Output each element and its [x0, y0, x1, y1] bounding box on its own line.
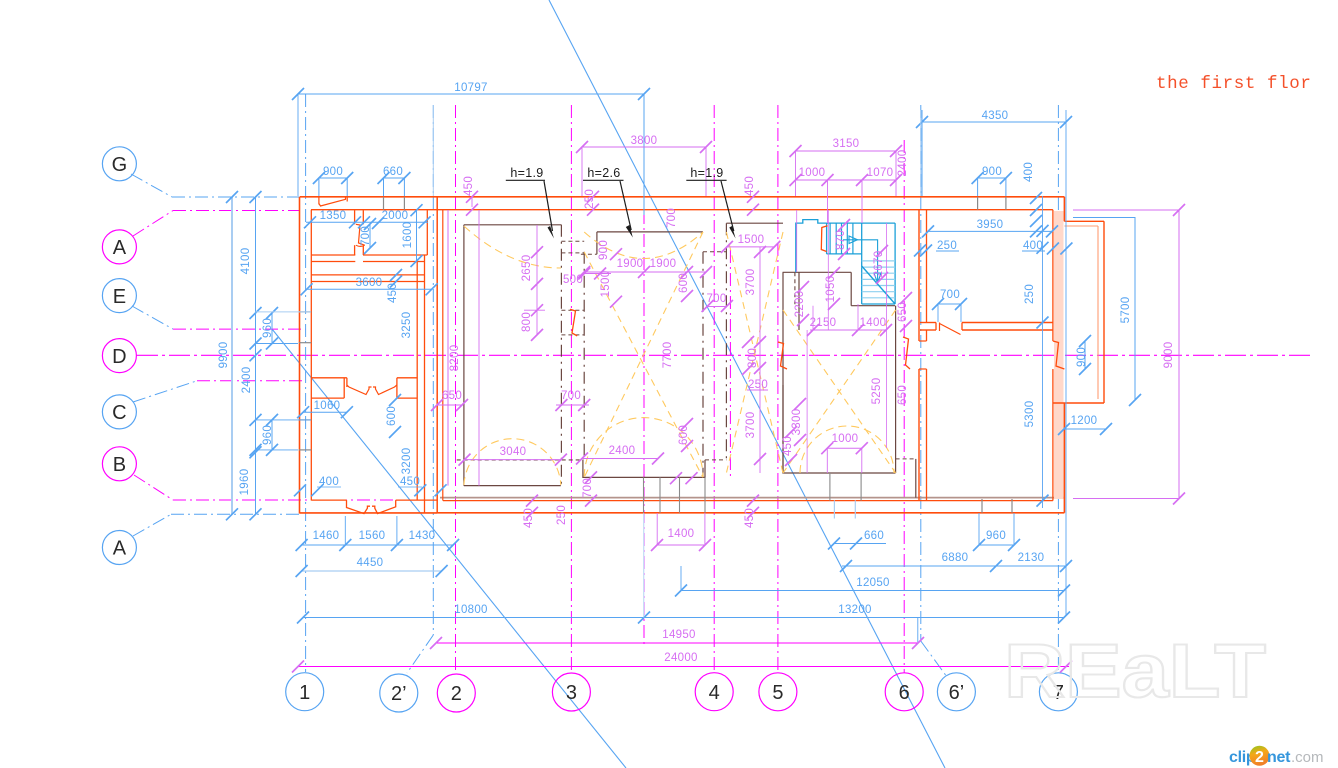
- svg-text:2200: 2200: [794, 291, 806, 318]
- right wall door 900 leaf: [1053, 341, 1065, 369]
- svg-text:net: net: [1267, 749, 1291, 766]
- svg-text:E: E: [113, 286, 126, 308]
- svg-text:5700: 5700: [1120, 297, 1132, 324]
- axis C leader: [133, 381, 197, 402]
- svg-text:650: 650: [897, 302, 909, 322]
- svg-text:9900: 9900: [218, 342, 230, 369]
- dim 1000 bottom centre room: [827, 447, 862, 449]
- svg-text:3200: 3200: [401, 448, 413, 475]
- axis circle B: [102, 447, 136, 481]
- dim 3040: [465, 459, 561, 461]
- stairs outline: [796, 220, 827, 273]
- right corridor door leaf: [903, 337, 910, 369]
- svg-text:450: 450: [463, 176, 475, 196]
- bottom-centre room walls (1000 window room): [782, 385, 784, 473]
- extension lines top: [432, 105, 434, 196]
- svg-text:1050: 1050: [825, 276, 837, 303]
- svg-text:900: 900: [598, 240, 610, 260]
- svg-text:4350: 4350: [982, 110, 1009, 122]
- dim 3950: [928, 230, 1052, 232]
- left room lintel dashed: [457, 459, 584, 461]
- svg-text:1: 1: [299, 682, 310, 704]
- dim 4450: [302, 570, 442, 572]
- axis 5 vertical: [777, 105, 779, 673]
- svg-text:h=1.9: h=1.9: [510, 166, 543, 180]
- stairs break line: [862, 266, 895, 304]
- windows bottom wall: [643, 477, 645, 512]
- centreline room vertical: [643, 165, 645, 646]
- svg-text:650: 650: [442, 390, 462, 402]
- axis circle A (upper): [102, 230, 136, 264]
- wing top rooms divider vertical: [354, 210, 356, 224]
- svg-text:450: 450: [744, 176, 756, 196]
- svg-text:2400: 2400: [609, 445, 636, 457]
- axis 3 vertical: [570, 105, 572, 673]
- svg-text:24000: 24000: [664, 652, 697, 664]
- axis circle 2apos: [380, 674, 418, 712]
- dim 9900 vertical: [231, 197, 233, 514]
- dim 1350 2000 chain: [306, 221, 428, 223]
- svg-text:2400: 2400: [241, 367, 253, 394]
- svg-text:960: 960: [986, 530, 1006, 542]
- svg-text:1350: 1350: [320, 210, 347, 222]
- svg-text:870: 870: [835, 230, 847, 250]
- svg-text:250: 250: [937, 240, 957, 252]
- axis 6 vertical: [903, 140, 905, 673]
- svg-text:5250: 5250: [871, 378, 883, 405]
- svg-text:3300: 3300: [791, 409, 803, 436]
- dim 1600 vertical: [416, 210, 418, 261]
- dim 1900 1900: [584, 271, 706, 273]
- svg-text:250: 250: [748, 379, 768, 391]
- svg-text:h=2.6: h=2.6: [587, 166, 620, 180]
- svg-text:7700: 7700: [662, 342, 674, 369]
- svg-text:660: 660: [864, 530, 884, 542]
- axis circle A (lower): [102, 531, 136, 565]
- outer wall right lower: [1063, 403, 1065, 513]
- svg-text:5300: 5300: [1024, 401, 1036, 428]
- svg-text:250: 250: [1024, 284, 1036, 304]
- wing bottom double door: [347, 500, 371, 513]
- svg-text:1200: 1200: [1071, 415, 1098, 427]
- svg-text:250: 250: [556, 505, 568, 525]
- wing middle double door leaves: [347, 385, 372, 395]
- axis 2apos vertical with elbow: [432, 105, 434, 635]
- right corridor wall lining: [896, 458, 916, 460]
- svg-text:8200: 8200: [449, 345, 461, 372]
- svg-text:3: 3: [566, 682, 577, 704]
- dim 3800: [582, 146, 706, 148]
- outer wall right upper: [1063, 197, 1065, 222]
- svg-text:3040: 3040: [500, 446, 527, 458]
- svg-text:6880: 6880: [942, 552, 969, 564]
- axis circle 2: [437, 674, 475, 712]
- svg-text:650: 650: [897, 385, 909, 405]
- corridor diagonals: [726, 232, 783, 473]
- dim 2400 hall: [582, 458, 658, 460]
- axis circle 7: [1039, 673, 1077, 711]
- svg-text:2400: 2400: [897, 150, 909, 177]
- dim 8200 vertical: [447, 210, 449, 486]
- corridor dim line x760: [759, 247, 761, 473]
- axis 6apos vertical with elbow: [920, 105, 922, 641]
- dim 960 lower: [271, 420, 273, 450]
- under-stairs room X cross: [783, 310, 896, 473]
- outer wall left: [299, 197, 301, 514]
- svg-text:.com: .com: [1291, 749, 1324, 766]
- svg-text:10797: 10797: [454, 82, 487, 94]
- door to under-stairs room leaf: [778, 342, 787, 369]
- dim 660 top: [384, 177, 405, 179]
- stairs walk line: [843, 240, 878, 281]
- svg-text:4: 4: [709, 682, 720, 704]
- axis 4 vertical: [713, 105, 715, 673]
- dim 1000 1070: [796, 179, 897, 181]
- svg-text:2’: 2’: [391, 683, 407, 705]
- svg-text:1430: 1430: [409, 530, 436, 542]
- axis D line: [137, 354, 1310, 356]
- svg-text:3800: 3800: [631, 135, 658, 147]
- outer wall top: [300, 196, 1064, 198]
- dim 10797: [298, 93, 644, 95]
- svg-text:6: 6: [899, 682, 910, 704]
- svg-text:700: 700: [561, 390, 581, 402]
- corridor right wall / under-stairs room left wall: [782, 272, 784, 473]
- axis circle 5: [759, 673, 797, 711]
- axis circle 6apos: [937, 673, 975, 711]
- svg-text:9000: 9000: [1163, 342, 1175, 369]
- construction diagonal line A: [549, 0, 945, 768]
- dim 1060: [303, 411, 347, 413]
- svg-text:G: G: [112, 154, 128, 176]
- wing middle room top wall: [311, 274, 425, 276]
- svg-text:450: 450: [782, 436, 794, 456]
- svg-text:B: B: [113, 454, 126, 476]
- under-stairs closet: [783, 271, 852, 273]
- porch outline: [1064, 220, 1104, 222]
- svg-text:2: 2: [1255, 749, 1264, 766]
- dim 700 door top right: [938, 303, 961, 305]
- dim 6880 2130: [842, 565, 1066, 567]
- svg-text:A: A: [113, 538, 127, 560]
- svg-text:10800: 10800: [454, 604, 487, 616]
- svg-text:1960: 1960: [239, 469, 251, 496]
- svg-text:D: D: [112, 346, 126, 368]
- stairs upper flight treads: [829, 223, 831, 254]
- svg-text:400: 400: [1023, 162, 1035, 182]
- hall right wall (dashed): [702, 252, 704, 478]
- extensions for dim 1400: [656, 513, 658, 545]
- shaft wall left of hall: [560, 225, 562, 486]
- axis circle C: [102, 395, 136, 429]
- svg-text:13200: 13200: [838, 604, 871, 616]
- dim 5300 vertical: [1042, 196, 1044, 508]
- axis circle G: [102, 147, 136, 181]
- door room1-room2 leaf: [356, 224, 365, 245]
- hall door left leaf: [570, 309, 577, 336]
- left room walls: [464, 224, 562, 226]
- extension near axis 6apos: [917, 618, 919, 644]
- svg-text:4100: 4100: [240, 248, 252, 275]
- svg-text:1400: 1400: [860, 317, 887, 329]
- hall top arc: [584, 232, 703, 259]
- svg-text:4450: 4450: [357, 557, 384, 569]
- wing middle divider with double door: [311, 377, 347, 379]
- axis circle 1: [286, 673, 324, 711]
- hall bottom arc: [584, 418, 703, 477]
- dim 650: [437, 404, 462, 406]
- top-right room door 700 leaf: [939, 323, 941, 332]
- svg-text:1500: 1500: [738, 234, 765, 246]
- arc left room top: [464, 226, 561, 268]
- svg-text:900: 900: [982, 166, 1002, 178]
- right rooms left wall: [918, 210, 920, 341]
- stairs right flight: [861, 223, 863, 304]
- svg-text:960: 960: [262, 318, 274, 338]
- under-stairs room bottom and right: [782, 472, 895, 474]
- svg-text:3600: 3600: [356, 277, 383, 289]
- dim 10800 13200: [303, 617, 1064, 619]
- dim 3600: [307, 288, 432, 290]
- svg-text:1900: 1900: [650, 258, 677, 270]
- dim 24000: [298, 666, 1069, 668]
- svg-text:1000: 1000: [799, 167, 826, 179]
- dim 14950: [436, 642, 918, 644]
- svg-text:h=1.9: h=1.9: [690, 166, 723, 180]
- wing top room right wall: [426, 210, 428, 255]
- svg-text:1060: 1060: [314, 400, 341, 412]
- svg-text:2000: 2000: [382, 210, 409, 222]
- bottom centre room arc: [800, 426, 894, 473]
- svg-text:2150: 2150: [810, 317, 837, 329]
- svg-text:1070: 1070: [867, 167, 894, 179]
- hall top wall: [597, 231, 703, 233]
- dim 960 bottom right: [979, 544, 1014, 546]
- wing right wall: [416, 262, 418, 501]
- svg-text:C: C: [112, 402, 126, 424]
- svg-text:1500: 1500: [600, 271, 612, 298]
- dim 1400 bottom: [657, 544, 705, 546]
- svg-text:2: 2: [451, 683, 462, 705]
- svg-text:6’: 6’: [949, 682, 965, 704]
- svg-text:660: 660: [383, 166, 403, 178]
- svg-text:1600: 1600: [402, 222, 414, 249]
- svg-text:1460: 1460: [313, 530, 340, 542]
- axis E leader: [132, 306, 173, 329]
- svg-text:900: 900: [1076, 347, 1088, 367]
- svg-text:2130: 2130: [1018, 552, 1045, 564]
- top-right room bottom wall: [920, 322, 936, 324]
- hall X cross: [584, 252, 703, 477]
- svg-text:3950: 3950: [977, 219, 1004, 231]
- room right of hall: [726, 222, 783, 224]
- svg-text:3700: 3700: [745, 269, 757, 296]
- svg-text:450: 450: [400, 476, 420, 488]
- dim 960 upper: [271, 313, 273, 344]
- svg-text:1560: 1560: [359, 530, 386, 542]
- dim 3250 vertical: [409, 289, 411, 375]
- axis B leader: [134, 475, 173, 500]
- windows left wall: [299, 311, 312, 313]
- dim 9000 vertical right: [1178, 210, 1180, 499]
- axis 2 vertical: [455, 105, 457, 673]
- dim 700 shaft: [556, 404, 589, 406]
- axis A bottom leader: [133, 514, 171, 536]
- dim 2150 1400: [810, 329, 886, 331]
- svg-text:3250: 3250: [401, 312, 413, 339]
- wing top room divider horizontal: [311, 254, 355, 256]
- corridor centreline: [729, 250, 731, 480]
- dim chain 4100 2400 1960: [255, 197, 257, 514]
- svg-text:A: A: [113, 237, 127, 259]
- arc left room bottom (3040 swing): [464, 439, 561, 485]
- dim 1460 1560 1430: [302, 544, 454, 546]
- axis circle 6: [885, 673, 923, 711]
- axis 1 vertical: [305, 94, 307, 672]
- svg-text:1000: 1000: [832, 433, 859, 445]
- svg-text:700: 700: [940, 289, 960, 301]
- svg-text:the first flor: the first flor: [1156, 74, 1311, 94]
- window 900 top right: [977, 197, 979, 210]
- dim 3150: [796, 150, 897, 152]
- axis G leader: [131, 174, 172, 197]
- svg-text:1400: 1400: [668, 528, 695, 540]
- violet extension lines stairs area: [796, 210, 798, 272]
- dim 660 bottom: [834, 543, 886, 545]
- dim 5700 vertical: [1134, 217, 1136, 400]
- svg-text:900: 900: [323, 166, 343, 178]
- axis circle D: [102, 339, 136, 373]
- svg-text:3150: 3150: [833, 138, 860, 150]
- svg-text:1900: 1900: [617, 258, 644, 270]
- closet left wall dashed: [794, 272, 796, 305]
- svg-text:600: 600: [386, 406, 398, 426]
- axis circle 4: [695, 673, 733, 711]
- axis 7 vertical: [1057, 105, 1059, 673]
- axis circle 3: [552, 673, 590, 711]
- svg-text:5: 5: [772, 682, 783, 704]
- svg-text:960: 960: [262, 425, 274, 445]
- svg-text:3700: 3700: [745, 412, 757, 439]
- main block left wall: [436, 197, 438, 513]
- svg-text:14950: 14950: [662, 629, 695, 641]
- dim 700 vertical door: [369, 224, 371, 248]
- wing room1 top door 900 leaf: [318, 197, 320, 205]
- svg-text:700: 700: [360, 226, 372, 246]
- hall bay bottom: [583, 460, 705, 478]
- dim 900 vertical door right: [1084, 341, 1086, 369]
- dim 12050: [681, 590, 1064, 592]
- dim 4350: [922, 121, 1066, 123]
- construction diagonal line C: [272, 329, 626, 768]
- dim 900 top left: [319, 177, 347, 179]
- axis A top leader: [133, 211, 173, 237]
- dim 1200 porch: [1064, 428, 1106, 430]
- svg-text:REaLT: REaLT: [1004, 629, 1266, 714]
- right wall pale infill: [1054, 211, 1064, 499]
- dim 900 top right: [978, 177, 1006, 179]
- stairs door leaf: [821, 226, 827, 252]
- svg-text:12050: 12050: [856, 577, 889, 589]
- wing bottom wall: [300, 512, 438, 514]
- svg-text:2650: 2650: [521, 255, 533, 282]
- svg-text:700: 700: [666, 208, 678, 228]
- extension x479: [478, 210, 480, 486]
- svg-text:450: 450: [387, 283, 399, 303]
- main bottom wall: [437, 512, 1064, 514]
- axis circle E: [102, 279, 136, 313]
- window 660 top: [383, 197, 385, 210]
